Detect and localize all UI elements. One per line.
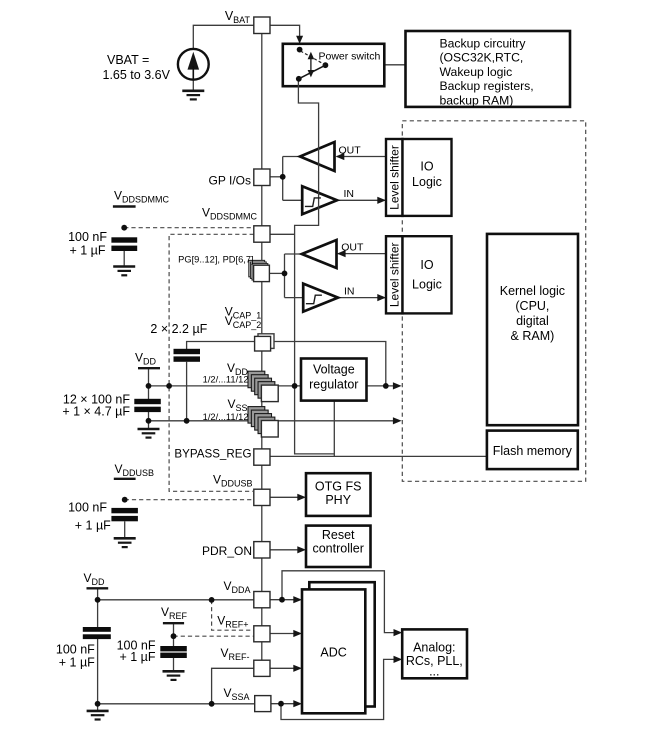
junction dot VREF- on VSSA net [209, 701, 215, 707]
backup circuitry box [406, 31, 571, 107]
pin BYPASS_REG [254, 449, 270, 465]
svg-text:GP I/Os: GP I/Os [209, 174, 251, 188]
ground below C6 [163, 671, 185, 680]
power switch internals: common contact dot [323, 62, 329, 68]
wire junction to schmitt input 1 [283, 199, 303, 201]
output buffer U3 (PG/PD) [302, 240, 337, 268]
wire VDDA over-route to analog block [282, 571, 395, 633]
svg-text:Reset: Reset [322, 528, 355, 542]
output buffer U1 (GP I/Os) [300, 142, 335, 171]
pin stack PG[9..12] PD[6,7] [249, 260, 270, 281]
svg-text:+ 1 µF: + 1 µF [119, 650, 155, 664]
wire 12x100nF cap bottom node [148, 412, 150, 428]
pin PDR_ON [254, 542, 270, 558]
label 100nF + 1uF (C5) [56, 643, 95, 670]
wire GP I/Os pin to junction [270, 176, 283, 178]
svg-text:2 × 2.2 µF: 2 × 2.2 µF [150, 322, 207, 336]
capacitor C3 12x100nF+4.7uF (VDD) [134, 399, 161, 412]
kernel logic dashed domain boundary [402, 121, 585, 482]
svg-text:1.65 to 3.6V: 1.65 to 3.6V [103, 68, 171, 82]
pin VCAP_1 VCAP_2 (double) [255, 334, 274, 351]
svg-text:100 nF: 100 nF [68, 501, 107, 515]
arrowhead VREF+ into ADC [293, 630, 302, 637]
junction dot VSSA under-route [278, 701, 284, 707]
svg-text:1/2/...11/12: 1/2/...11/12 [203, 375, 249, 385]
label analog block [406, 641, 463, 679]
label reset controller [312, 528, 363, 556]
svg-text:VREF-: VREF- [220, 646, 249, 662]
label voltage regulator [309, 362, 358, 391]
svg-text:VDDUSB: VDDUSB [114, 462, 154, 478]
wire junction to schmitt input 2 [285, 297, 304, 299]
pin stack VDD 1/2...11/12 [248, 371, 278, 401]
svg-text:VDDSDMMC: VDDSDMMC [114, 189, 170, 205]
svg-text:+ 1 µF: + 1 µF [59, 655, 95, 669]
svg-text:ADC: ADC [320, 646, 346, 660]
arrowhead regulator output into kernel domain [393, 382, 402, 389]
VDDSDMMC supply bar [113, 205, 136, 207]
kernel logic box [487, 234, 578, 425]
svg-text:Logic: Logic [412, 175, 442, 189]
svg-text:(OSC32K,RTC,: (OSC32K,RTC, [440, 51, 524, 65]
label backup circuitry [440, 37, 534, 108]
label 12x100nF + 4.7uF [62, 392, 130, 418]
junction dot VDDSDMMC cap [121, 225, 127, 231]
level shifter box 1 [386, 139, 403, 216]
svg-text:...: ... [429, 664, 439, 678]
pin VDDSDMMC [254, 226, 270, 242]
VREF supply bar [163, 622, 184, 624]
wire junction to output buffer 1 apex [283, 156, 300, 158]
battery source VBAT (current-source style circle) [178, 49, 209, 80]
svg-text:Level shifter: Level shifter [388, 242, 402, 307]
wire VBAT pin to battery source [193, 25, 254, 49]
level shifter box 2 [386, 236, 403, 313]
svg-text:& RAM): & RAM) [511, 329, 555, 343]
wire battery source to ground [192, 80, 194, 91]
svg-text:VDD: VDD [83, 571, 105, 587]
VDDUSB supply bar [114, 478, 136, 480]
svg-text:(CPU,: (CPU, [515, 299, 549, 313]
schmitt symbol 2 [306, 295, 322, 304]
svg-text:BYPASS_REG: BYPASS_REG [174, 448, 251, 461]
svg-text:VSS: VSS [227, 397, 247, 413]
svg-text:Backup circuitry: Backup circuitry [440, 37, 527, 51]
schmitt trigger U2 (GP I/Os) [302, 186, 337, 214]
wire VREF+ pin to ADC [270, 633, 295, 635]
junction dot PG/PD [282, 271, 288, 277]
svg-text:OTG FS: OTG FS [315, 479, 362, 493]
label battery voltage [103, 53, 171, 82]
ground below battery source [182, 91, 204, 100]
capacitor C5 100nF+1uF (VDDA) [83, 627, 111, 639]
svg-text:Backup registers,: Backup registers, [440, 79, 534, 93]
pin VBAT [254, 17, 270, 34]
junction dot GP I/Os [280, 174, 286, 180]
wire regulator output to kernel domain [367, 385, 395, 387]
wire VSSA under-route to analog block [281, 659, 395, 719]
svg-text:VDDUSB: VDDUSB [213, 473, 253, 489]
wire VREF- pin to ADC [270, 667, 295, 669]
wire VDD bottom cap to VSSA net [97, 639, 99, 711]
power switch internals: blade [299, 65, 326, 79]
wire IN 2 to level shifter [338, 297, 385, 299]
pin GP I/Os [254, 169, 270, 186]
svg-text:Kernel logic: Kernel logic [500, 284, 565, 298]
node PG/PD junction vertical spur [284, 254, 286, 298]
wire VDDA net horizontal [98, 599, 254, 601]
capacitor C6 100nF+1uF (VREF) [160, 646, 187, 658]
schmitt symbol 1 [305, 198, 321, 207]
ground below C3 [138, 429, 160, 438]
arrowhead VSS net into kernel domain [393, 417, 402, 424]
svg-text:IO: IO [420, 160, 433, 174]
flash memory box [487, 431, 578, 470]
arrowhead VSSA route into analog block [394, 656, 403, 663]
wire OUT 2 from level shifter [338, 253, 386, 255]
arrowhead VSSA into ADC [293, 700, 302, 707]
wire OUT 1 from level shifter [337, 156, 387, 158]
OTG FS PHY box [306, 473, 371, 516]
schmitt trigger U4 (PG/PD) [303, 284, 338, 312]
svg-text:Power switch: Power switch [319, 51, 381, 63]
svg-text:VDD: VDD [135, 351, 157, 367]
svg-text:VREF: VREF [161, 605, 188, 621]
svg-text:Level shifter: Level shifter [388, 145, 402, 210]
wire PG/PD pins to junction [269, 272, 284, 274]
junction dot VREF+ tie on VDDA net [209, 597, 215, 603]
label IO logic 2 [412, 258, 442, 292]
junction dot VSSA left [95, 701, 101, 707]
svg-text:OUT: OUT [341, 242, 364, 254]
label VSS 1/2...11/12 pins [203, 397, 249, 422]
svg-text:VSSA: VSSA [223, 686, 249, 702]
VDD supply bar (mid) [138, 367, 160, 369]
svg-text:PG[9..12], PD[6,7]: PG[9..12], PD[6,7] [178, 254, 253, 264]
ground below VSSA net left [87, 711, 109, 720]
wire junction to output buffer 2 apex [285, 253, 302, 255]
arrowhead into OTG FS PHY [297, 494, 306, 501]
junction dot VDDA over-route [279, 597, 285, 603]
arrowhead VREF- into ADC [293, 665, 302, 672]
wire VDD supply bar down to VDD net [148, 368, 150, 399]
wire VREF- pin to VSSA net [212, 668, 254, 704]
arrowhead into reset controller [297, 546, 306, 553]
pin VDDUSB [254, 489, 270, 505]
label 100nF + 1uF (C1) [68, 230, 107, 258]
svg-text:VDDSDMMC: VDDSDMMC [202, 206, 258, 222]
supply route from power switch down the left of kernel domain [295, 79, 335, 454]
ADC box back (stacked) [309, 582, 374, 706]
reset controller box [306, 526, 371, 567]
label VDD 1/2...11/12 pins [203, 361, 249, 385]
junction dot 2x2.2uF on VSS net [184, 418, 190, 424]
svg-text:VBAT =: VBAT = [107, 53, 149, 67]
dashed wire from VREF cap to VREF+ pin [174, 635, 254, 637]
pin stack VSS 1/2...11/12 [248, 407, 278, 437]
svg-text:PHY: PHY [325, 493, 351, 507]
power switch internals: double arrow [308, 52, 315, 78]
arrowhead IN 2 [377, 294, 386, 301]
node GP I/Os junction vertical spur [282, 157, 284, 201]
label kernel logic [500, 284, 565, 343]
dashed VDD tie wire to VDDSDMMC and VDDUSB (net V12) [169, 234, 254, 491]
wire VDDSDMMC pin to supply rail [270, 233, 295, 235]
svg-text:regulator: regulator [309, 377, 358, 391]
IO logic box 1 [403, 139, 452, 216]
wire 2x2.2uF cap bottom to VSS net [186, 362, 188, 421]
svg-text:VBAT: VBAT [225, 9, 251, 25]
arrowhead IN 1 (into level shifter) [377, 197, 386, 204]
pin VSSA [255, 696, 271, 712]
arrowhead OUT 1 (pointing left into buffer base) [336, 153, 345, 160]
dashed tie wire VDDA to VREF+ [212, 600, 254, 630]
pin VDDA [254, 592, 270, 608]
svg-text:+ 1 × 4.7 µF: + 1 × 4.7 µF [62, 404, 130, 418]
wire IN 1 to level shifter [337, 199, 385, 201]
arrowhead VDDA route into analog block [394, 629, 403, 636]
svg-text:IO: IO [420, 258, 433, 272]
analog block box (RCs, PLL) [402, 629, 467, 678]
wire VCAP pin to regulator output node [274, 342, 386, 386]
wire power switch to backup circuitry [384, 64, 406, 66]
VDD supply bar (bottom) [87, 587, 109, 589]
capacitor C1 100nF+1uF (VDDSDMMC) [111, 237, 137, 266]
label IO logic 1 [412, 160, 442, 189]
pin VREF- [254, 660, 270, 676]
wire BYPASS_REG pin to flash memory [270, 455, 487, 457]
wire VCAP pin to 2x2.2uF capacitor [187, 342, 255, 350]
wire PDR_ON pin to reset controller [270, 549, 299, 551]
svg-text:+ 1 µF: + 1 µF [69, 244, 105, 258]
junction dot regulator output node [383, 383, 389, 389]
junction dot VDDUSB cap [122, 497, 128, 503]
IO logic box 2 [403, 236, 452, 313]
arrowhead VDDA into ADC [293, 596, 302, 603]
arrowhead into power switch top [296, 36, 303, 44]
junction dot VDD bottom supply [95, 597, 101, 603]
svg-text:digital: digital [516, 314, 549, 328]
svg-text:PDR_ON: PDR_ON [202, 544, 252, 558]
wire VBAT pin to power switch with corner [270, 25, 300, 37]
svg-text:OUT: OUT [339, 145, 362, 157]
svg-text:Voltage: Voltage [313, 362, 355, 376]
label 100nF + 1uF (C6) [117, 638, 156, 664]
svg-text:IN: IN [344, 188, 355, 200]
svg-text:100 nF: 100 nF [68, 230, 107, 244]
svg-text:Analog:: Analog: [413, 641, 455, 655]
label VCAP_1 VCAP_2 [225, 305, 262, 331]
wire regulator bottom to BYPASS_REG net [333, 401, 335, 457]
svg-text:Wakeup logic: Wakeup logic [440, 65, 513, 79]
voltage regulator box [301, 359, 367, 401]
wire VDD bottom supply bar down across VDDA net to ground [97, 588, 99, 627]
power switch box SW1 [283, 44, 385, 86]
wire VSSA net horizontal [98, 703, 255, 705]
main pin rail [261, 34, 263, 677]
arrowhead OUT 2 [337, 250, 346, 257]
junction dot 12x100nF cap bottom [146, 418, 152, 424]
pin VREF+ [254, 626, 270, 642]
svg-text:VDDA: VDDA [223, 579, 250, 595]
svg-text:IN: IN [344, 285, 355, 297]
junction dot supply route on VDD net [292, 383, 298, 389]
junction dot dashed tie on VDD net [166, 383, 172, 389]
capacitor C2 2x2.2uF (VCAP) [174, 349, 201, 362]
svg-text:+ 1 µF: + 1 µF [75, 519, 111, 533]
label OTG FS PHY [315, 479, 362, 507]
wire VSS net horizontal with arrow into kernel domain [149, 420, 395, 422]
junction dot VREF cap [171, 633, 177, 639]
power switch internals: lower contact dot [296, 76, 302, 82]
wire VREF cap bottom to ground [173, 658, 175, 671]
wire VDD net horizontal to voltage regulator [149, 385, 302, 387]
label 100nF + 1uF (C4) [68, 501, 111, 533]
power switch internals: dashed throw [301, 51, 325, 65]
wire VDDA pin to ADC [270, 599, 295, 601]
svg-text:Logic: Logic [412, 277, 442, 291]
wire VSSA pin to ADC [270, 703, 295, 705]
ground below C1 [113, 267, 135, 276]
junction dot VDD supply on VDD net [146, 383, 152, 389]
ADC box front [302, 589, 365, 713]
svg-text:controller: controller [312, 541, 363, 555]
dashed wire from VDDSDMMC decoupling cap to VDDSDMMC pin [124, 227, 254, 229]
svg-text:1/2/...11/12: 1/2/...11/12 [203, 412, 249, 422]
wire VDDUSB pin to OTG FS PHY [270, 496, 299, 498]
power switch internals: input contact dot [297, 47, 303, 53]
svg-text:backup RAM): backup RAM) [440, 93, 514, 107]
dashed wire from VDDUSB decoupling cap to VDDUSB pin [125, 499, 254, 501]
svg-text:Flash memory: Flash memory [493, 444, 573, 458]
svg-text:VREF+: VREF+ [217, 614, 248, 630]
wire VREF supply bar down to cap [173, 623, 175, 646]
capacitor C4 100nF+1uF (VDDUSB) [111, 508, 137, 538]
ground below C4 [114, 538, 136, 547]
